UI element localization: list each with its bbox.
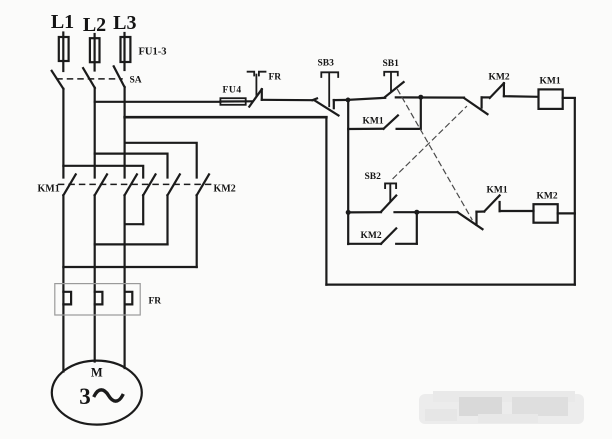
wire cross-connect pole2-pole5 — [95, 243, 168, 245]
FR contact right terminal drop — [261, 89, 263, 100]
wire KM2 coil to rail — [558, 212, 575, 214]
motor M ellipse — [52, 361, 142, 425]
wire to KM2 coil — [500, 210, 534, 212]
wire KM2 pole1 down — [142, 195, 144, 224]
wire left return rail — [325, 117, 327, 284]
contactor KM1 main contact pole2 — [95, 174, 107, 195]
pushbutton SB3 right terminal stub — [333, 100, 335, 108]
svg-text:KM2: KM2 — [489, 73, 510, 83]
contact SB2 NC interlock blade (upper) — [464, 98, 488, 114]
coil KM2 — [534, 204, 558, 223]
contactor KM2 main contact pole3 — [197, 174, 209, 195]
pushbutton SB2 wire right — [395, 212, 417, 244]
switch SA blade pole2 — [83, 68, 95, 88]
wire control return from L3 — [125, 116, 327, 119]
svg-text:KM1: KM1 — [38, 184, 60, 195]
junction dot SB2 branch — [346, 210, 351, 215]
svg-text:KM2: KM2 — [361, 231, 382, 241]
FR heater element 2 — [95, 292, 103, 305]
svg-text:KM1: KM1 — [540, 76, 561, 86]
svg-text:FU4: FU4 — [223, 86, 242, 96]
junction dot after SB3 — [346, 98, 351, 103]
contact KM1 auxiliary blade — [384, 115, 398, 128]
switch SA blade pole1 — [52, 71, 64, 89]
svg-text:L3: L3 — [113, 12, 136, 34]
pushbutton SB3 left terminal bump — [313, 98, 318, 100]
wire motor phase U vertical — [62, 195, 64, 371]
wire bottom rail — [326, 284, 574, 286]
pushbutton SB2 wire left — [348, 211, 381, 213]
svg-text:3: 3 — [79, 384, 91, 409]
svg-text:FR: FR — [269, 73, 282, 83]
thermal relay FR box — [55, 284, 140, 315]
wire right rail — [574, 98, 576, 284]
wire FR to SB3 — [262, 99, 313, 102]
wire cross-connect pole3-pole4 — [125, 223, 144, 225]
contact KM2 NC interlock stub — [503, 83, 505, 96]
contact SB1 NC interlock stub — [475, 212, 477, 225]
contact SB2 NC interlock stub — [481, 97, 483, 107]
switch SA blade pole3 — [114, 66, 125, 87]
wire junction to SB1 — [348, 98, 385, 100]
wire SB3 to junction — [334, 99, 348, 101]
dashed interlock link SB2 to upper NC — [393, 107, 467, 179]
pushbutton SB2 actuator — [385, 183, 396, 201]
coil KM1 — [539, 89, 563, 109]
contact KM1 auxiliary wire right — [397, 97, 421, 128]
fuse FU3 — [123, 33, 125, 70]
wire motor phase V vertical — [94, 195, 96, 361]
junction dot lower branch — [414, 210, 419, 215]
wire L1 vertical — [62, 89, 64, 178]
svg-text:SB2: SB2 — [365, 172, 382, 182]
contact KM1 NC interlock stub — [499, 202, 501, 211]
contact KM2 auxiliary wire left — [348, 243, 381, 245]
svg-text:FR: FR — [149, 297, 162, 307]
svg-text:SA: SA — [130, 76, 142, 86]
wire L2 vertical — [94, 88, 96, 178]
pushbutton SB3 actuator — [321, 72, 338, 106]
wire branch L2 to KM2 pole2 — [95, 154, 168, 178]
wire control left drop — [347, 100, 349, 244]
contactor KM2 main contact pole1 — [143, 174, 155, 195]
pushbutton SB1 actuator — [384, 72, 398, 91]
wire KM2 pole3 down — [196, 195, 198, 267]
wire KM1 coil to rail — [563, 97, 575, 99]
FR heater element 1 — [63, 292, 71, 305]
motor AC wave symbol — [95, 390, 123, 401]
pushbutton SB3 blade — [314, 100, 338, 115]
wire lower branch to interlock — [417, 211, 458, 213]
contact SB1 NC interlock blade (lower) — [458, 212, 483, 229]
fuse FU1 — [62, 33, 64, 72]
contact KM1 auxiliary self-hold wire left — [348, 128, 383, 131]
svg-text:KM2: KM2 — [537, 192, 558, 202]
fuse FU2 — [93, 34, 95, 71]
svg-text:M: M — [91, 365, 103, 379]
wire branch L3 to KM2 pole3 — [125, 143, 197, 178]
wire motor phase W vertical — [123, 195, 125, 368]
wire branch L1 to KM2 pole1 — [63, 166, 143, 178]
contact KM2 NC interlock blade — [490, 83, 504, 98]
contact KM1 NC interlock blade — [484, 195, 499, 211]
svg-text:FU1-3: FU1-3 — [139, 47, 167, 58]
FR contact release bracket — [248, 72, 266, 96]
dashed interlock link SB1 to lower NC — [398, 90, 473, 220]
wire to KM1 coil — [504, 95, 538, 98]
svg-text:KM1: KM1 — [363, 117, 384, 127]
KM main contacts gang dashed link — [59, 183, 211, 185]
contact KM2 NC interlock connector — [482, 96, 490, 98]
wire SB1 to interlock — [396, 96, 464, 98]
svg-text:KM1: KM1 — [487, 186, 508, 196]
svg-text:L2: L2 — [83, 14, 106, 36]
pushbutton SB2 blade — [381, 196, 396, 212]
svg-text:KM2: KM2 — [214, 184, 236, 195]
SA gang dashed link — [57, 78, 122, 80]
contactor KM2 main contact pole2 — [168, 174, 180, 195]
svg-text:L1: L1 — [51, 11, 74, 33]
wire KM2 pole2 down — [166, 195, 168, 244]
FR contact blade — [249, 89, 261, 106]
watermark mosaic — [419, 391, 584, 424]
contact KM2 auxiliary blade — [381, 228, 396, 243]
wire control feed from L2 to FU4 — [95, 101, 221, 103]
pushbutton SB1 blade — [385, 82, 403, 97]
contactor KM1 main contact pole1 — [63, 174, 75, 195]
wire cross-connect pole1-pole6 — [63, 266, 196, 268]
FR heater element 3 — [125, 292, 133, 305]
contact KM2 auxiliary wire right — [396, 243, 417, 245]
svg-text:SB1: SB1 — [383, 59, 400, 69]
contactor KM1 main contact pole3 — [125, 174, 137, 195]
contact KM1 NC interlock connector — [477, 210, 485, 212]
fuse FU4 — [220, 98, 245, 105]
svg-text:SB3: SB3 — [318, 59, 335, 69]
junction dot top — [418, 95, 423, 100]
wire L3 vertical — [123, 87, 125, 178]
